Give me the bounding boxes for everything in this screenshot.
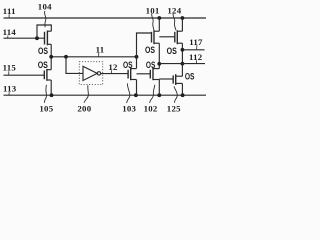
svg-text:124: 124 [167,5,181,15]
leader squiggle 200 [84,85,88,103]
node dot net B / wire 112 [157,62,161,66]
wire 112 [159,63,205,65]
gate lead 125 [159,78,173,80]
svg-text:200: 200 [77,104,91,114]
leader squiggle 103 [127,83,130,103]
svg-text:OS: OS [146,59,155,70]
transistor 125 (OS) [159,70,194,85]
node dot on 113 under 103 [134,93,138,97]
svg-text:112: 112 [189,52,203,62]
net B vertical: 101 source through node 112 to 102 drain [158,43,160,68]
leader tick 113 [8,92,10,95]
drain stub 124 [177,30,182,32]
node dot on 113 under 125 [181,93,185,97]
net B vertical: 101 drain from wire 111 [158,18,160,31]
gate bar 104 [44,32,46,45]
channel bar 101 [153,30,155,44]
source stub 102 [153,79,159,81]
drain stub 103 [131,68,137,70]
svg-text:105: 105 [39,104,53,114]
drain stub 104 [47,30,51,32]
gate bar 124 [174,32,176,43]
svg-text:OS: OS [185,70,195,81]
leader squiggle 125 [174,86,177,102]
node dot on 114 (gate/drain tie of 104) [35,36,39,40]
leader tick 11 [98,53,100,57]
svg-text:102: 102 [144,104,158,114]
svg-text:103: 103 [122,104,136,114]
source stub 124 [177,42,182,44]
wire 117 [182,49,204,51]
node dot 11 right [135,55,139,59]
node dot 117 [181,48,185,52]
drain stub 125 [176,75,183,77]
gate bar 105 [43,71,45,80]
transistor 103 (OS) [123,59,137,80]
leader tick 111 [8,14,10,18]
gate-drain bracket of 104 [37,25,51,38]
source stub 103 [131,79,137,81]
transistor 105 (OS) [38,57,52,95]
node 11 wire [51,56,136,58]
drain stub 101 [154,30,159,32]
gate lead 102 [137,73,151,75]
net C vertical: 124 source through 117 and 112 to 125 drain [181,43,183,76]
node dot on 111 at transistor 101 drain [157,16,161,20]
svg-text:OS: OS [123,59,133,70]
transistor 101 (OS) [145,30,159,55]
svg-text:104: 104 [38,2,52,12]
node 12 wire (inverter output) [101,73,129,75]
channel bar 102 [152,68,154,80]
drain stub 102 [153,68,159,70]
source stub 101 [154,42,159,44]
drain stub 105 [47,69,51,71]
gate bar 102 [149,70,151,79]
node dot on 113 under 105 [50,93,54,97]
drain lead 105 [50,57,52,70]
inverter output bubble [97,72,100,75]
channel bar 124 [176,30,178,44]
node dot net C / wire 112 [181,62,185,66]
net C vertical: 124 drain from wire 111 [181,18,183,31]
net C vertical: 125 source to wire 113 [181,83,183,95]
channel bar 104 [46,31,48,46]
node dot 11 left [49,55,53,59]
gate lead 124 [159,36,175,38]
leader squiggle 102 [150,85,155,103]
transistor 124 (OS) [159,30,182,56]
svg-text:OS: OS [167,45,177,56]
leader tick 117 [196,45,198,50]
leader tick 115 [8,71,10,75]
svg-text:OS: OS [38,45,48,56]
transistor 104 (diode-connected OS) [37,25,51,57]
transistor 102 (OS) [137,59,160,80]
wire node11 to inverter input [66,57,83,74]
wire 111 [4,17,207,19]
svg-text:101: 101 [146,5,160,15]
leader tick 114 [7,36,9,39]
wire 114 [4,37,45,39]
svg-text:11: 11 [96,44,105,54]
svg-text:117: 117 [189,37,203,47]
svg-text:114: 114 [3,27,17,37]
svg-text:115: 115 [3,63,17,73]
channel bar 103 [130,68,132,80]
gate bar 103 [127,70,129,79]
net B vertical: 102 source to wire 113 [158,80,160,96]
node dot on 111 at transistor 124 drain [181,16,185,20]
svg-text:113: 113 [3,84,17,94]
svg-text:OS: OS [145,44,155,55]
net A vertical: node 11 to 101 gate and 103 drain [137,33,152,68]
source stub 125 [176,82,183,84]
source stub 104 [47,43,51,45]
wire 113 [4,94,207,96]
op-amp inverter U200 triangle [83,66,97,80]
svg-text:12: 12 [108,62,118,72]
channel bar 105 [46,69,48,81]
svg-text:125: 125 [167,104,181,114]
source stub 105 [47,79,51,81]
net A lower: 103 source to wire 113 [136,80,138,96]
source lead 104 [50,44,52,57]
node dot on 113 under 102 [157,93,161,97]
leader squiggle 105 [44,85,46,103]
svg-text:OS: OS [38,59,48,70]
leader squiggle 104 [45,11,46,27]
dashed box 200 [79,62,102,85]
leader squiggle 124 [173,14,176,31]
channel bar 125 [175,74,177,85]
leader tick 12 [111,70,113,73]
gate bar 125 [172,75,174,83]
source lead 105 [50,80,52,95]
node dot 11 inverter branch [64,55,68,59]
wire 115 [4,74,45,76]
leader tick 112 [196,60,198,63]
gate bar 101 [151,32,153,43]
leader squiggle 101 [152,14,154,31]
